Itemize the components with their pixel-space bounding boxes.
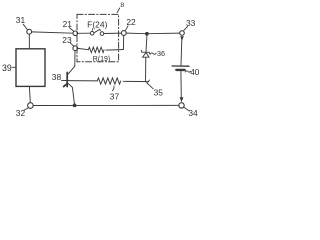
junction dot emitter-rail bbox=[73, 104, 77, 108]
zener D36 cathode bar bbox=[141, 50, 150, 54]
wire R37 to zener column bbox=[123, 80, 148, 82]
wire node31 down to box39 bbox=[28, 34, 30, 49]
label 33 leader bbox=[184, 26, 188, 30]
svg-text:R(19): R(19) bbox=[93, 54, 111, 63]
svg-text:35: 35 bbox=[154, 88, 164, 98]
wire top rail 21 to switch bbox=[78, 32, 91, 34]
zener D36 bottom lead bbox=[145, 57, 147, 81]
arrow above node 34 bbox=[180, 97, 184, 102]
label 35 leader arrow bbox=[146, 82, 148, 84]
capacitor C40 bottom plate bbox=[176, 69, 184, 71]
label 21 leader bbox=[69, 28, 74, 32]
wire top rail 22 to junction bbox=[126, 32, 145, 35]
arrow below node 33 bbox=[180, 36, 184, 41]
switch F(24) contact right bbox=[100, 32, 104, 36]
label 39 leader bbox=[12, 66, 16, 68]
transistor Q38 emitter arrow bbox=[64, 84, 67, 87]
label 35 leader bbox=[148, 84, 154, 89]
svg-text:21: 21 bbox=[63, 19, 73, 29]
svg-text:38: 38 bbox=[52, 72, 62, 82]
capacitor C40 top plate bbox=[172, 65, 189, 67]
svg-text:40: 40 bbox=[190, 68, 200, 77]
wire overshoot hook bbox=[148, 80, 149, 82]
switch F(24) contact left bbox=[90, 31, 94, 35]
svg-text:23: 23 bbox=[62, 35, 72, 45]
node 23 bbox=[73, 46, 78, 51]
svg-text:36: 36 bbox=[157, 49, 165, 58]
svg-text:34: 34 bbox=[188, 108, 198, 118]
node 33 bbox=[180, 31, 185, 36]
svg-text:22: 22 bbox=[126, 17, 136, 27]
switch F(24) blade bbox=[94, 29, 101, 32]
svg-text:37: 37 bbox=[110, 91, 120, 101]
label F(24) tick bbox=[91, 29, 94, 31]
label 38 leader bbox=[61, 79, 66, 81]
transistor Q38 base lead bbox=[68, 80, 98, 82]
wire box39 down to node32 bbox=[28, 87, 31, 103]
transistor Q38 base bar bbox=[66, 72, 68, 86]
wire R19 to riser bbox=[106, 49, 123, 52]
resistor R19 bbox=[88, 47, 104, 53]
svg-text:F(24): F(24) bbox=[87, 21, 107, 30]
wire top rail junction to 33 bbox=[149, 32, 180, 35]
node 21 bbox=[73, 31, 78, 36]
wire top rail switch to 22 bbox=[104, 32, 122, 34]
wire capacitor down to arrow bbox=[180, 71, 182, 97]
label 37 leader bbox=[113, 86, 115, 91]
svg-text:33: 33 bbox=[186, 18, 196, 28]
wire bottom rail bbox=[33, 104, 178, 106]
svg-text:8: 8 bbox=[120, 2, 124, 9]
node 32 bbox=[28, 103, 34, 109]
wire node23 to R19 bbox=[78, 48, 89, 49]
wire riser up to node 22 bbox=[122, 36, 124, 50]
zener D36 top lead bbox=[145, 36, 148, 52]
wire right rail down to capacitor bbox=[180, 40, 183, 66]
label 34 leader bbox=[184, 107, 189, 110]
label 32 leader bbox=[24, 108, 28, 110]
label 22 leader bbox=[126, 26, 128, 30]
node 31 bbox=[27, 29, 32, 34]
junction dot A bbox=[145, 32, 149, 36]
label 23 leader bbox=[70, 43, 73, 46]
enclosure 8 dash-dot box bbox=[77, 14, 119, 61]
block 39 bbox=[16, 49, 45, 87]
label 8 leader bbox=[117, 8, 119, 13]
svg-text:31: 31 bbox=[16, 15, 26, 25]
svg-text:39: 39 bbox=[2, 63, 12, 73]
resistor R37 bbox=[97, 78, 121, 84]
transistor Q38 collector bbox=[68, 51, 75, 75]
label 36 squiggle bbox=[150, 53, 156, 54]
node 22 bbox=[121, 31, 126, 36]
wire top rail left segment bbox=[32, 32, 73, 33]
label 40 squiggle bbox=[185, 71, 190, 72]
zener D36 anode triangle bbox=[143, 53, 149, 58]
node 34 bbox=[179, 103, 184, 108]
svg-text:32: 32 bbox=[16, 108, 26, 118]
transistor Q38 emitter bbox=[68, 83, 75, 103]
label 31 leader bbox=[23, 24, 27, 29]
